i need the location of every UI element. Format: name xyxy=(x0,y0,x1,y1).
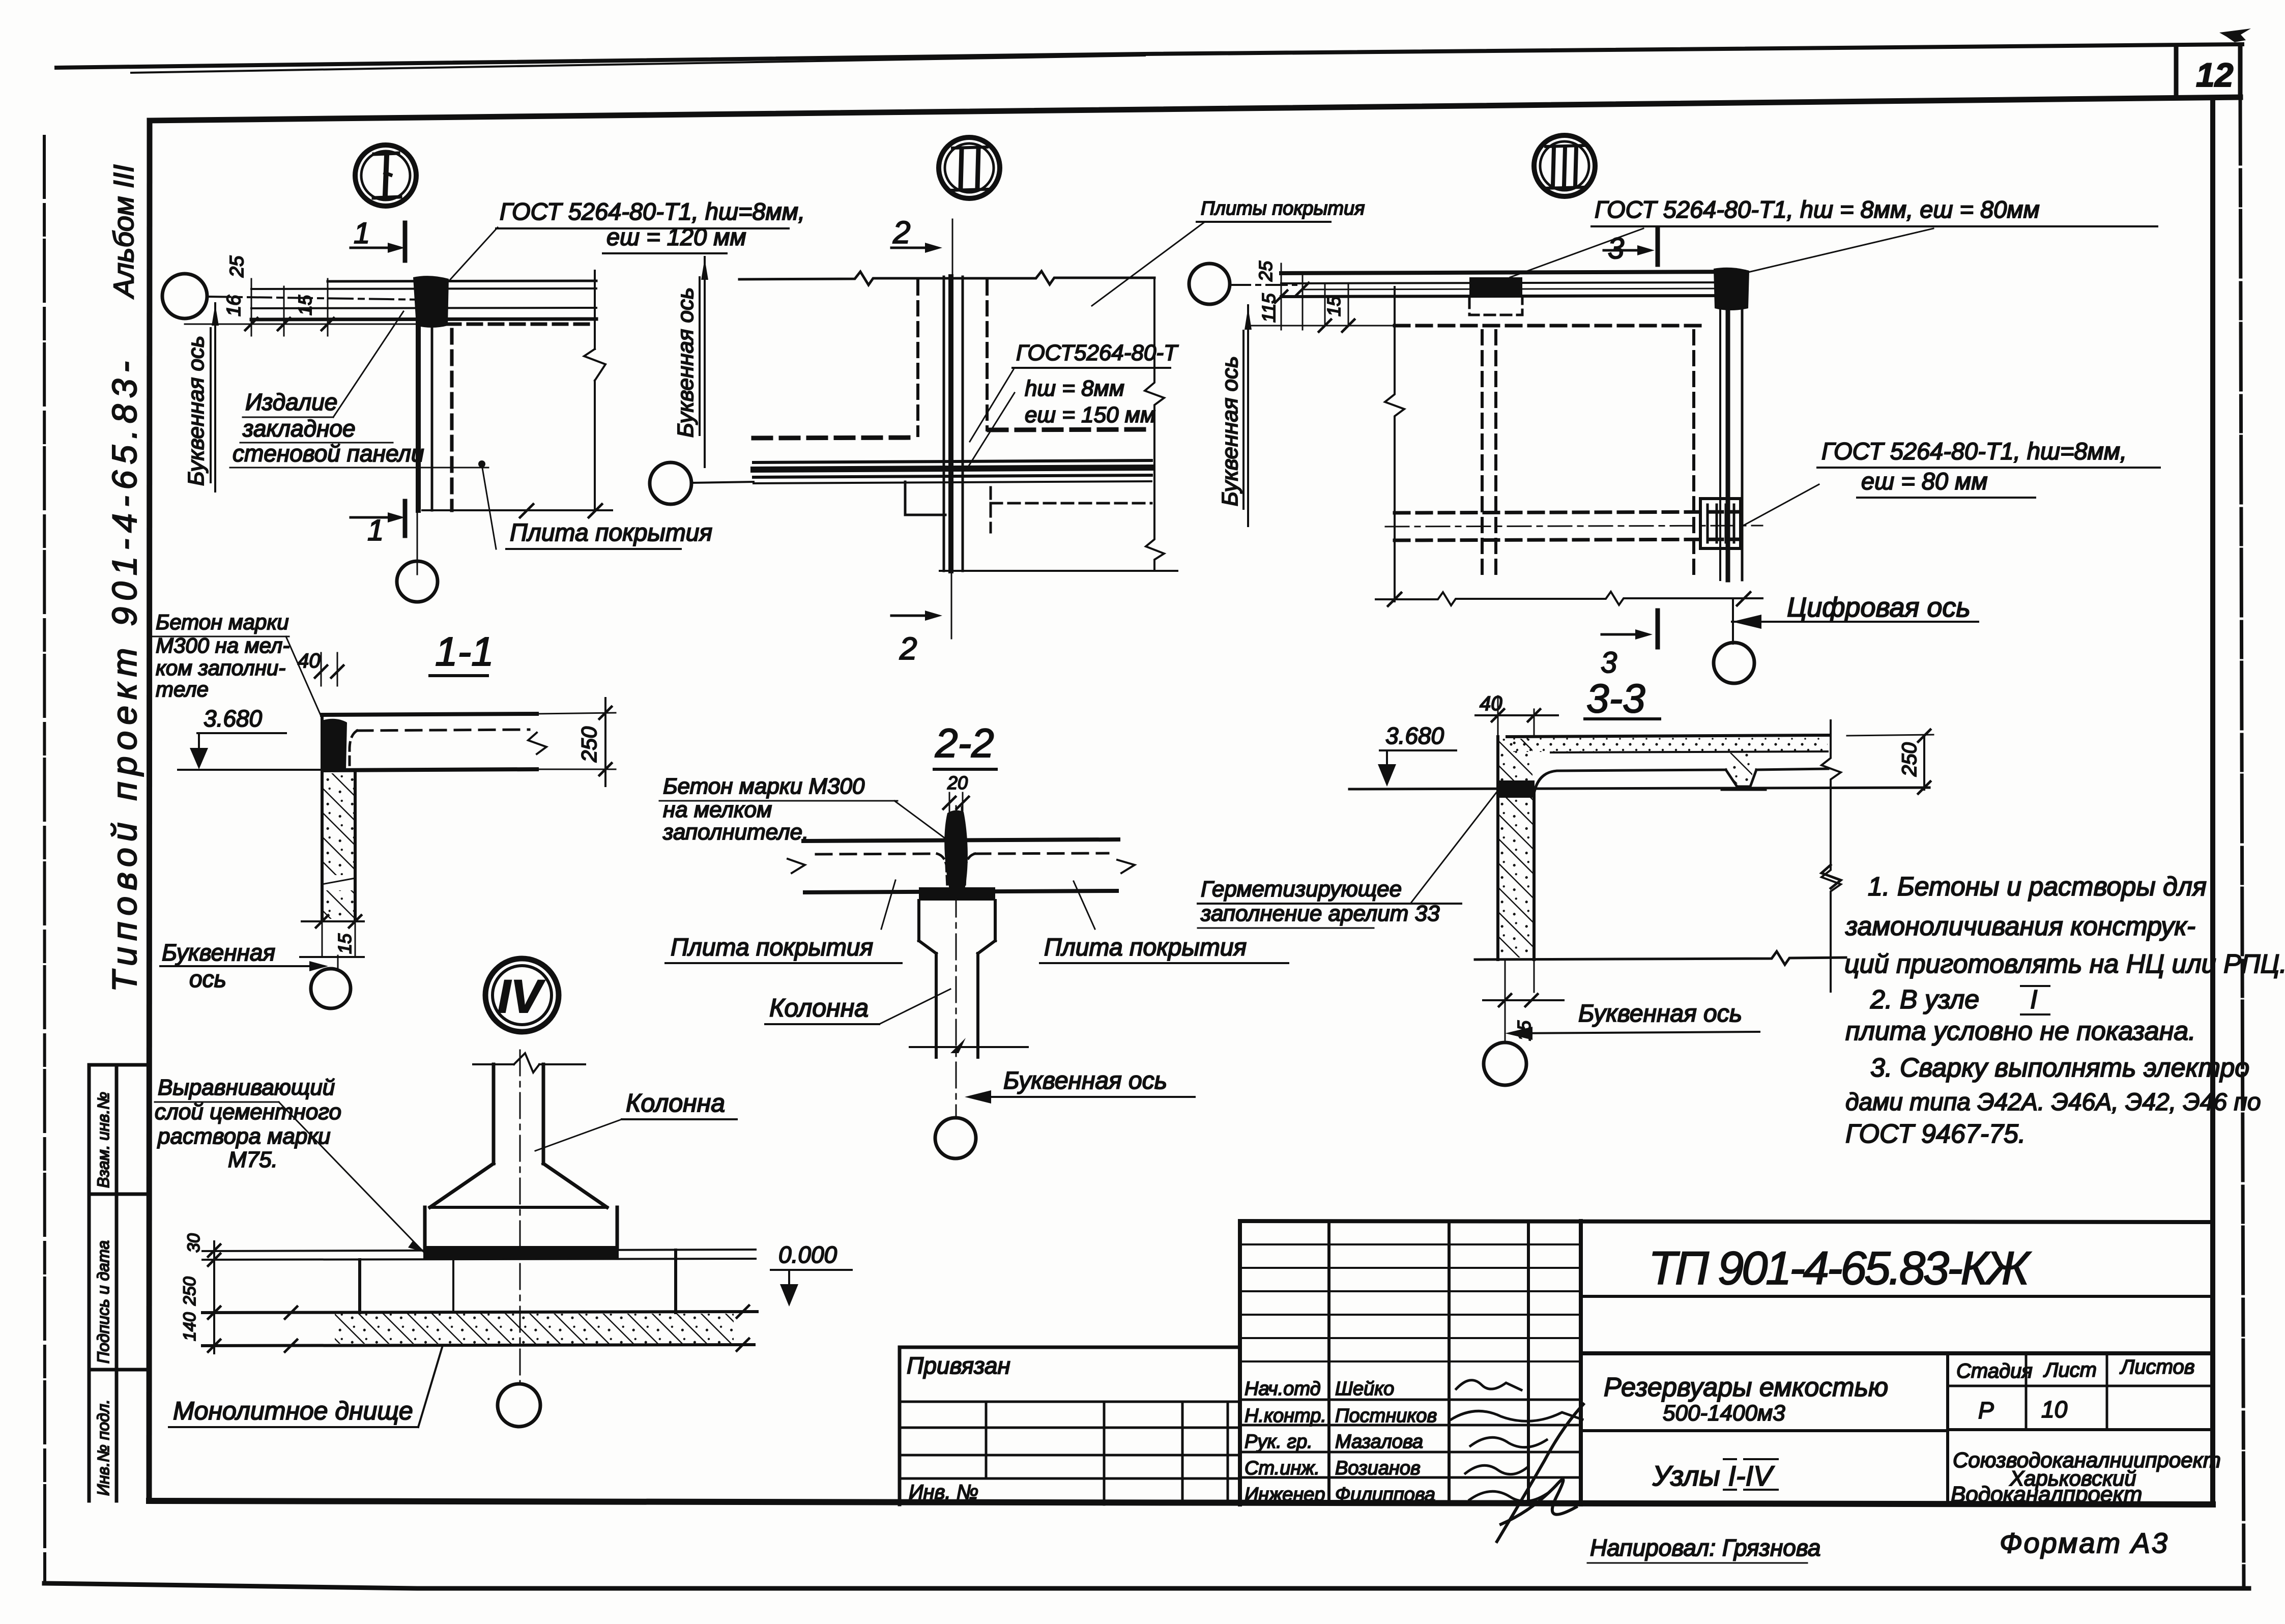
joint band line2 thick xyxy=(754,468,1151,470)
svg-text:16: 16 xyxy=(223,295,245,316)
sheet number box right edge xyxy=(2238,46,2243,98)
wall panel band bottom edge xyxy=(251,319,596,320)
leveling layer dark bed under base xyxy=(423,1249,619,1260)
svg-text:15: 15 xyxy=(334,933,355,954)
plate dashed bottom left xyxy=(754,438,918,438)
corner weld blob xyxy=(413,276,449,328)
svg-text:3-3: 3-3 xyxy=(1586,676,1645,721)
drawing frame bottom border xyxy=(149,1501,2213,1504)
dim line horizontal xyxy=(185,324,416,325)
letter axis dash line xyxy=(1230,284,1296,286)
leader to joint xyxy=(894,801,949,842)
svg-text:250: 250 xyxy=(180,1277,199,1306)
svg-text:Стадия: Стадия xyxy=(1956,1360,2033,1382)
plate dashed horizontal row2 xyxy=(1395,539,1740,540)
axis dash-dot horizontal xyxy=(1385,526,1762,527)
slab top edge xyxy=(322,714,537,715)
dim line vertical Буквенная ось xyxy=(704,257,706,467)
ground line under level mark xyxy=(178,769,326,771)
svg-text:заполнителе.: заполнителе. xyxy=(662,820,808,845)
svg-text:I: I xyxy=(2030,985,2037,1014)
plate dashed bottom right xyxy=(989,429,1151,430)
signature scribbles xyxy=(1456,1380,1521,1390)
section mark 1 bottom xyxy=(351,516,388,519)
level line long xyxy=(1349,788,1929,789)
назв divider xyxy=(1581,1429,1948,1432)
svg-text:2: 2 xyxy=(892,215,910,250)
svg-text:ГОСТ 5264-80-Т1, hш=8мм,: ГОСТ 5264-80-Т1, hш=8мм, xyxy=(500,198,805,225)
svg-text:стеновой панели: стеновой панели xyxy=(233,440,424,467)
slab dashed outline vertical xyxy=(450,330,454,510)
svg-text:еш = 120 мм: еш = 120 мм xyxy=(606,223,746,250)
letter axis circle xyxy=(162,274,207,318)
joint band line1 xyxy=(754,460,1151,462)
svg-text:ГОСТ 5264-80-Т1, hш = 8мм, еш: ГОСТ 5264-80-Т1, hш = 8мм, еш = 80мм xyxy=(1595,196,2040,223)
svg-text:30: 30 xyxy=(184,1233,204,1253)
wall right edge xyxy=(1532,794,1536,960)
привязан row lines xyxy=(900,1402,1240,1478)
right block divider 1 xyxy=(1581,1295,2213,1298)
svg-text:Плита покрытия: Плита покрытия xyxy=(510,519,712,546)
wall edge stubs below xyxy=(322,921,355,969)
weld blob centre xyxy=(944,810,968,889)
plate dashed edge right xyxy=(986,281,989,430)
drawing frame right border xyxy=(2210,98,2215,1504)
top second converging line xyxy=(131,55,1145,73)
slab top edge xyxy=(803,839,1118,841)
svg-text:0.000: 0.000 xyxy=(778,1241,837,1268)
svg-text:замоноличивания конструк-: замоноличивания конструк- xyxy=(1845,912,2195,941)
wall left edge xyxy=(1496,737,1499,960)
bottom end ticks xyxy=(1388,592,1750,606)
joint band line3 xyxy=(754,475,1151,477)
svg-text:теле: теле xyxy=(156,677,209,701)
margin stamp divider 1 xyxy=(89,1063,150,1067)
column head xyxy=(919,901,995,941)
svg-text:Буквенная ось: Буквенная ось xyxy=(1578,1000,1742,1027)
dim line below band xyxy=(1248,325,1395,327)
svg-text:ГОСТ5264-80-Т: ГОСТ5264-80-Т xyxy=(1016,340,1179,365)
svg-text:Буквенная ось: Буквенная ось xyxy=(1218,356,1242,506)
svg-text:hш = 8мм: hш = 8мм xyxy=(1025,376,1124,401)
letter axis dash-dot line xyxy=(207,297,422,300)
svg-text:ком заполни-: ком заполни- xyxy=(156,656,285,680)
slab bottom edge xyxy=(422,509,612,511)
svg-text:Постников: Постников xyxy=(1335,1405,1437,1427)
letter axis circle xyxy=(311,969,351,1008)
узел III marker circle xyxy=(1534,135,1595,196)
svg-text:еш = 150 мм: еш = 150 мм xyxy=(1025,402,1155,427)
section mark 1 top xyxy=(351,247,388,249)
svg-text:Герметизирующее: Герметизирующее xyxy=(1201,877,1402,902)
outer bottom edge line xyxy=(44,1583,2249,1588)
bottom edge line with breaks xyxy=(1376,592,1762,605)
wall bottom line xyxy=(1475,951,1846,965)
welded plate right-mid xyxy=(1700,499,1741,548)
svg-text:дами типа Э42А. Э46А, Э42, Э46: дами типа Э42А. Э46А, Э42, Э46 по xyxy=(1845,1089,2261,1116)
svg-text:ций приготовлять на НЦ или РПЦ: ций приготовлять на НЦ или РПЦ. xyxy=(1844,949,2285,979)
svg-text:15: 15 xyxy=(1323,296,1344,316)
svg-text:140: 140 xyxy=(180,1312,199,1341)
svg-text:слой цементного: слой цементного xyxy=(155,1099,341,1124)
column base block xyxy=(425,1207,617,1248)
svg-text:3. Сварку выполнять электро: 3. Сварку выполнять электро xyxy=(1870,1053,2249,1083)
foundation pedestal xyxy=(360,1250,676,1313)
digit axis line xyxy=(1732,599,1734,644)
slab break mark xyxy=(528,733,546,754)
svg-text:250: 250 xyxy=(577,726,601,763)
joint bars above slab xyxy=(949,807,962,839)
svg-text:Издалие: Издалие xyxy=(245,389,337,415)
svg-text:Буквенная ось: Буквенная ось xyxy=(184,336,209,486)
column shaft xyxy=(936,953,978,1057)
svg-text:Шейко: Шейко xyxy=(1335,1378,1394,1400)
leader from Издалие to wall xyxy=(333,311,403,417)
svg-text:закладное: закладное xyxy=(242,415,356,442)
стадия table vertical xyxy=(1946,1353,1949,1504)
central grid row lines staff xyxy=(1240,1400,1581,1477)
svg-text:Рук. гр.: Рук. гр. xyxy=(1245,1431,1313,1453)
column taper xyxy=(919,941,995,953)
svg-text:Лист: Лист xyxy=(2043,1359,2097,1381)
letter axis circle xyxy=(650,462,691,504)
svg-text:Буквенная ось: Буквенная ось xyxy=(673,287,698,438)
wall hatch lower xyxy=(324,890,354,919)
outer right edge line xyxy=(2240,98,2244,1587)
svg-text:1: 1 xyxy=(367,514,384,547)
central grid row lines upper xyxy=(1240,1244,1581,1361)
notes break mark xyxy=(1821,865,1841,888)
svg-text:Напировал: Грязнова: Напировал: Грязнова xyxy=(1590,1534,1820,1561)
right panel band lines xyxy=(1719,273,1721,580)
welded plate mid-top xyxy=(1469,277,1522,298)
digit axis circle xyxy=(1714,643,1754,683)
wall centre line xyxy=(417,322,418,574)
leader to weld xyxy=(447,227,498,283)
svg-text:25: 25 xyxy=(226,255,248,278)
leader to bed xyxy=(279,1102,423,1252)
right slab edge xyxy=(1145,278,1164,571)
svg-text:Ст.инж.: Ст.инж. xyxy=(1245,1458,1320,1479)
welded plate dashed pocket xyxy=(1469,298,1522,315)
svg-text:Альбом III: Альбом III xyxy=(107,164,139,299)
left edge thin vertical with break xyxy=(1385,287,1404,601)
wall panel lines xyxy=(943,277,945,571)
днище end ticks xyxy=(285,1306,749,1352)
leaders from top label xyxy=(1510,228,1933,277)
svg-text:12: 12 xyxy=(2196,56,2234,94)
leader to wall xyxy=(1410,789,1499,904)
column axis dash-dot xyxy=(519,1050,521,1384)
leader днище xyxy=(418,1347,442,1427)
svg-text:Бетон марки М300: Бетон марки М300 xyxy=(663,774,865,799)
svg-text:Р: Р xyxy=(1978,1397,1994,1424)
margin stamp divider 2 xyxy=(89,1193,150,1196)
wall panel band top edge xyxy=(328,281,596,281)
plate dashed vertical pair xyxy=(1481,331,1484,577)
wall hatch xyxy=(1499,739,1532,958)
slab dashed outline horizontal xyxy=(447,323,596,326)
svg-text:ГОСТ 5264-80-Т1, hш=8мм,: ГОСТ 5264-80-Т1, hш=8мм, xyxy=(1821,438,2127,465)
wall weld pocket xyxy=(322,719,347,771)
dim extension ticks xyxy=(1281,264,1348,330)
svg-text:еш = 80 мм: еш = 80 мм xyxy=(1861,468,1988,495)
svg-text:IV: IV xyxy=(498,971,545,1023)
letter axis circle xyxy=(1189,264,1230,304)
svg-text:10: 10 xyxy=(2041,1396,2068,1423)
svg-text:Привязан: Привязан xyxy=(907,1352,1010,1379)
svg-text:ГОСТ 9467-75.: ГОСТ 9467-75. xyxy=(1845,1119,2026,1149)
plate dashed horizontal row1 xyxy=(1395,512,1740,513)
top panel band top edge xyxy=(1281,272,1744,273)
svg-text:3.680: 3.680 xyxy=(204,705,263,732)
svg-text:Бетон марки: Бетон марки xyxy=(156,610,289,634)
узел I marker circle xyxy=(355,145,416,206)
plate dashed edge left xyxy=(916,281,919,436)
стадия header row line xyxy=(1948,1385,2213,1387)
wall joint line xyxy=(322,878,355,884)
slab top flange hatched xyxy=(1507,735,1828,737)
wall panel band line 2 xyxy=(251,288,596,289)
slab right edge break xyxy=(584,349,605,381)
rib trapezoid xyxy=(1726,770,1756,787)
slab top edge xyxy=(739,271,1154,285)
svg-text:115: 115 xyxy=(1258,293,1279,323)
узел I roman numeral xyxy=(385,156,387,195)
leader to right plate xyxy=(1744,484,1819,525)
узел II roman numeral xyxy=(961,149,978,188)
drawing frame top border xyxy=(150,97,2240,121)
lower dashed vertical right xyxy=(990,487,992,532)
узел IV marker circle xyxy=(485,959,559,1032)
column axis dash-dot xyxy=(956,806,957,1117)
svg-text:25: 25 xyxy=(1255,260,1276,282)
letter axis circle bottom xyxy=(498,1384,540,1427)
svg-text:3: 3 xyxy=(1601,646,1617,679)
dim vertical Буквенная ось xyxy=(1247,305,1249,526)
slab dashed inner line xyxy=(357,730,529,731)
slab bottom ticks xyxy=(520,504,602,517)
svg-text:Взам. инв.№: Взам. инв.№ xyxy=(94,1092,112,1188)
svg-text:Плиты покрытия: Плиты покрытия xyxy=(1201,198,1365,219)
монолитное днище bottom line xyxy=(203,1345,754,1346)
wall hatch upper xyxy=(324,773,354,875)
dim 250 right xyxy=(1847,735,1933,736)
joint band line4 xyxy=(754,481,1151,483)
bearing pad xyxy=(919,887,995,901)
svg-text:500-1400м3: 500-1400м3 xyxy=(1663,1401,1785,1426)
svg-text:Мазалова: Мазалова xyxy=(1335,1431,1423,1453)
svg-text:1-1: 1-1 xyxy=(435,629,494,674)
vertical wall panel edge thick xyxy=(416,284,421,510)
wall bottom dim xyxy=(302,920,364,922)
slab dashed inner left xyxy=(816,854,937,854)
letter axis circle xyxy=(1484,1042,1526,1085)
bottom dim 15 xyxy=(1483,999,1564,1001)
svg-text:40: 40 xyxy=(1480,692,1502,715)
rib feet xyxy=(1722,789,1766,791)
letter axis line xyxy=(691,482,754,483)
узел II marker circle xyxy=(939,137,1000,198)
svg-text:на мелком: на мелком xyxy=(663,797,772,822)
dim ticks xyxy=(245,318,334,330)
top panel band line2 xyxy=(1281,282,1744,283)
central grid verticals xyxy=(1238,1221,1242,1504)
svg-text:Возианов: Возианов xyxy=(1335,1458,1421,1479)
plate dashed horizontal top xyxy=(1395,324,1700,328)
leaders to joint xyxy=(967,369,1015,469)
dim line left vertical xyxy=(213,1241,215,1353)
svg-text:Формат А3: Формат А3 xyxy=(2000,1527,2167,1559)
lower dashed horizontal right xyxy=(991,502,1151,505)
svg-text:ось: ось xyxy=(189,966,226,992)
margin stamp column line A xyxy=(88,1065,91,1501)
svg-text:Инв.№ подл.: Инв.№ подл. xyxy=(94,1399,112,1496)
svg-text:Выравнивающий: Выравнивающий xyxy=(158,1075,335,1100)
монолитное днище top line xyxy=(203,1312,757,1313)
svg-text:2. В узле: 2. В узле xyxy=(1870,985,1979,1014)
slab right edge and break vertical xyxy=(1821,720,1841,992)
slab left break xyxy=(788,859,805,873)
top panel band line3 xyxy=(1303,288,1744,289)
dim line vertical with Буквенная ось xyxy=(214,303,216,491)
svg-text:М300 на мел-: М300 на мел- xyxy=(156,633,290,657)
margin stamp divider 3 xyxy=(89,1368,150,1372)
svg-text:плита условно не показана.: плита условно не показана. xyxy=(1845,1017,2196,1046)
dim extension lines xyxy=(251,279,328,336)
svg-text:Нач.отд: Нач.отд xyxy=(1245,1378,1321,1400)
svg-text:Листов: Листов xyxy=(2119,1356,2195,1378)
svg-text:15: 15 xyxy=(295,295,315,315)
wall right edge xyxy=(354,770,357,920)
svg-text:Инженер: Инженер xyxy=(1245,1484,1325,1505)
sheet number box divider xyxy=(2174,47,2179,97)
leader to wall top xyxy=(286,636,322,718)
dim 250 right xyxy=(537,713,616,769)
svg-text:40: 40 xyxy=(298,650,321,672)
привязан table top xyxy=(900,1346,1240,1349)
svg-text:Буквенная: Буквенная xyxy=(162,939,275,966)
drawing frame left border xyxy=(149,121,150,1501)
svg-text:3: 3 xyxy=(1608,232,1624,265)
column bottom dim line xyxy=(910,1046,1028,1048)
svg-text:Колонна: Колонна xyxy=(769,994,869,1022)
slab bottom edge xyxy=(326,769,537,770)
svg-text:1: 1 xyxy=(354,217,370,250)
column shaft xyxy=(494,1064,543,1164)
slab bottom edge xyxy=(805,891,1117,892)
right block divider 2 xyxy=(1581,1351,2213,1355)
wall panel band line 3 xyxy=(251,308,596,308)
svg-text:заполнение арелит 33: заполнение арелит 33 xyxy=(1200,901,1440,926)
svg-text:Филиппова: Филиппова xyxy=(1335,1484,1435,1505)
slab dashed inner right xyxy=(975,853,1108,854)
leveling layer lines xyxy=(203,1250,756,1251)
vertical wall panel edge thin xyxy=(431,284,433,510)
svg-text:Буквенная ось: Буквенная ось xyxy=(1003,1067,1167,1094)
plate dashed vertical inner right xyxy=(1692,331,1695,580)
bottom slab edge xyxy=(940,570,1177,572)
wall edge stubs below xyxy=(1505,960,1534,1042)
margin stamp column line B xyxy=(115,1065,119,1501)
corner scan mark xyxy=(2219,28,2251,42)
svg-text:М75.: М75. xyxy=(228,1147,278,1172)
стадия values row line xyxy=(1948,1428,2213,1431)
leader Плита покрытия xyxy=(482,465,496,549)
монолитное днище hatch xyxy=(335,1314,734,1344)
title block top line xyxy=(1240,1221,2213,1222)
corner weld blob xyxy=(1714,268,1749,310)
top sheet edge line xyxy=(56,44,2242,68)
svg-text:20: 20 xyxy=(947,772,968,793)
notch below band xyxy=(905,482,945,515)
привязан verticals xyxy=(986,1402,1228,1504)
svg-text:Типовой проект 901-4-65.83-: Типовой проект 901-4-65.83- xyxy=(105,361,144,992)
digit axis circle xyxy=(397,561,438,602)
привязан table left xyxy=(898,1347,902,1504)
узел III roman numeral xyxy=(1553,148,1576,186)
column break top xyxy=(473,1053,585,1072)
svg-text:Инв. №: Инв. № xyxy=(909,1481,978,1503)
svg-text:2-2: 2-2 xyxy=(935,720,994,766)
slab right break xyxy=(1117,860,1135,873)
svg-text:Цифровая ось: Цифровая ось xyxy=(1787,592,1971,623)
svg-text:250: 250 xyxy=(1898,742,1921,777)
top panel band bottom edge xyxy=(1281,296,1744,297)
svg-text:Монолитное днище: Монолитное днище xyxy=(173,1397,413,1425)
column flare xyxy=(430,1164,607,1207)
letter axis circle xyxy=(935,1118,976,1158)
leader Плиты покрытия xyxy=(1092,222,1205,306)
svg-text:Плита покрытия: Плита покрытия xyxy=(1044,934,1247,961)
svg-text:Подпись и дата: Подпись и дата xyxy=(94,1240,112,1364)
outer left edge line xyxy=(44,136,45,1583)
svg-text:Колонна: Колонна xyxy=(626,1089,725,1117)
wall left edge xyxy=(321,715,324,920)
svg-text:2: 2 xyxy=(899,631,917,666)
svg-text:Водоканалпроект: Водоканалпроект xyxy=(1951,1482,2142,1507)
slab soffit with wall curve xyxy=(1534,770,1726,794)
svg-text:Н.контр.: Н.контр. xyxy=(1245,1405,1326,1427)
svg-text:Плита покрытия: Плита покрытия xyxy=(671,934,873,961)
wall weld blob xyxy=(1497,780,1535,798)
svg-text:3.680: 3.680 xyxy=(1385,722,1444,749)
svg-text:1. Бетоны и растворы для: 1. Бетоны и растворы для xyxy=(1868,872,2207,902)
svg-text:Резервуары емкостью: Резервуары емкостью xyxy=(1604,1373,1888,1402)
svg-text:ТП 901-4-65.83-КЖ: ТП 901-4-65.83-КЖ xyxy=(1648,1242,2032,1294)
svg-text:Узлы I-IV: Узлы I-IV xyxy=(1652,1460,1775,1492)
slab right edge xyxy=(594,271,596,510)
